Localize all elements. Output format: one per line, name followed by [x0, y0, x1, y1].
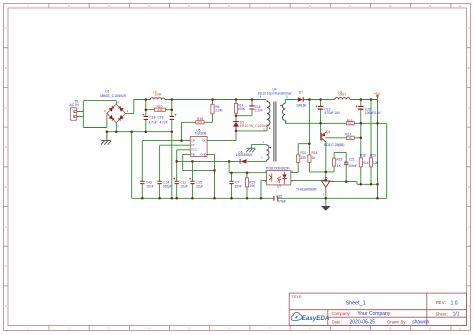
- svg-text:470pF: 470pF: [277, 199, 286, 203]
- svg-text:H: H: [5, 304, 7, 308]
- svg-text:4.7uF: 4.7uF: [149, 121, 157, 125]
- svg-text:R18: R18: [360, 154, 366, 158]
- svg-text:Sheet_1: Sheet_1: [346, 300, 366, 306]
- svg-text:Sheet:: Sheet:: [436, 311, 448, 316]
- svg-text:1mH: 1mH: [155, 93, 162, 97]
- svg-text:REV:: REV:: [436, 300, 446, 305]
- svg-text:Drawn By:: Drawn By:: [387, 320, 406, 325]
- svg-text:THX208: THX208: [195, 131, 207, 135]
- svg-text:330: 330: [300, 156, 306, 160]
- svg-text:TITLE:: TITLE:: [292, 295, 303, 299]
- svg-text:E: E: [468, 185, 470, 189]
- svg-text:1.0: 1.0: [451, 300, 458, 306]
- svg-text:shawon: shawon: [412, 320, 429, 326]
- svg-text:R38: R38: [197, 117, 203, 121]
- svg-text:C: C: [468, 106, 470, 110]
- svg-text:A: A: [5, 26, 7, 30]
- svg-text:11: 11: [429, 327, 432, 331]
- svg-text:SR160: SR160: [297, 104, 307, 108]
- svg-text:H: H: [468, 304, 470, 308]
- svg-text:10K: 10K: [249, 184, 256, 188]
- svg-text:R16: R16: [312, 151, 318, 155]
- svg-text:Date:: Date:: [332, 320, 342, 325]
- svg-text:2.2M: 2.2M: [215, 109, 222, 113]
- svg-text:10K: 10K: [373, 161, 380, 165]
- svg-text:12: 12: [459, 4, 462, 8]
- svg-text:BC817-25(6B): BC817-25(6B): [324, 143, 344, 147]
- svg-text:Company:: Company:: [332, 311, 351, 316]
- svg-text:C19: C19: [158, 116, 164, 120]
- svg-text:51K: 51K: [363, 161, 370, 165]
- svg-text:47R: 47R: [197, 121, 202, 125]
- svg-text:C22: C22: [276, 194, 282, 198]
- svg-text:D: D: [468, 145, 470, 149]
- svg-text:330pF: 330pF: [163, 184, 172, 188]
- svg-text:470uF 16V: 470uF 16V: [325, 111, 341, 115]
- svg-text:R17: R17: [345, 132, 351, 136]
- svg-text:10: 10: [389, 327, 392, 331]
- svg-text:G: G: [5, 264, 7, 268]
- svg-text:430: 430: [158, 108, 163, 112]
- svg-text:10uH: 10uH: [338, 92, 346, 96]
- svg-text:10nF: 10nF: [146, 184, 153, 188]
- svg-text:100K: 100K: [238, 107, 246, 111]
- svg-text:R10: R10: [157, 104, 163, 108]
- svg-text:E: E: [5, 185, 7, 189]
- svg-text:1N4148WS: 1N4148WS: [236, 153, 252, 157]
- svg-text:2.2nF: 2.2nF: [255, 109, 263, 113]
- svg-text:EasyEDA: EasyEDA: [302, 315, 330, 322]
- svg-text:OC: OC: [202, 139, 206, 143]
- svg-text:10nF: 10nF: [235, 184, 242, 188]
- svg-text:10: 10: [389, 4, 392, 8]
- svg-text:C18: C18: [150, 116, 156, 120]
- svg-text:AC IN: AC IN: [69, 103, 79, 107]
- svg-text:G: G: [468, 264, 470, 268]
- svg-text:D7: D7: [299, 91, 303, 95]
- svg-text:2020-06-25: 2020-06-25: [350, 320, 376, 326]
- svg-text:C21: C21: [349, 158, 355, 162]
- svg-text:A: A: [468, 26, 470, 30]
- svg-text:10uF: 10uF: [180, 184, 187, 188]
- svg-text:D: D: [5, 145, 7, 149]
- svg-text:GND: GND: [200, 152, 206, 156]
- svg-text:4.7uF: 4.7uF: [160, 121, 168, 125]
- svg-text:Your Company: Your Company: [357, 311, 390, 317]
- svg-text:FR107W_C109849: FR107W_C109849: [240, 124, 269, 128]
- svg-text:100uF/16V: 100uF/16V: [365, 111, 381, 115]
- svg-text:U7: U7: [277, 185, 281, 189]
- svg-text:1K: 1K: [349, 136, 352, 140]
- svg-text:12: 12: [459, 327, 462, 331]
- svg-text:22uF: 22uF: [196, 184, 203, 188]
- svg-text:R21: R21: [300, 151, 306, 155]
- svg-text:Q1: Q1: [326, 130, 330, 134]
- svg-text:B: B: [5, 66, 7, 70]
- svg-text:PC817X3NSZ0F: PC817X3NSZ0F: [266, 167, 290, 171]
- svg-text:B: B: [468, 66, 470, 70]
- svg-text:U6: U6: [323, 176, 327, 180]
- svg-text:MB6S_C106929: MB6S_C106929: [100, 94, 126, 98]
- svg-text:C: C: [5, 106, 7, 110]
- svg-text:11: 11: [429, 4, 432, 8]
- svg-text:FB: FB: [191, 152, 195, 156]
- svg-text:100nF: 100nF: [348, 164, 357, 168]
- svg-text:VCC: VCC: [191, 148, 197, 152]
- svg-text:R20: R20: [370, 154, 376, 158]
- svg-text:CB: CB: [191, 139, 195, 143]
- svg-text:R22: R22: [337, 158, 343, 162]
- svg-text:CT: CT: [191, 143, 195, 147]
- svg-text:R15: R15: [347, 119, 353, 123]
- svg-text:TL431AIDBZR: TL431AIDBZR: [296, 187, 317, 191]
- svg-text:1/1: 1/1: [453, 311, 460, 317]
